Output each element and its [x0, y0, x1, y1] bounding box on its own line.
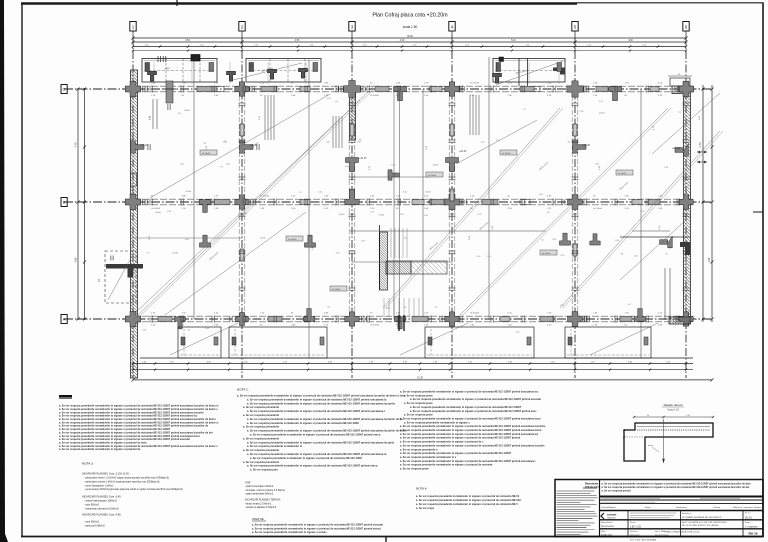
- svg-text:Gr 20x50: Gr 20x50: [618, 173, 627, 175]
- svg-text:-zerasa cu kapada 1.5 kN/m2: -zerasa cu kapada 1.5 kN/m2: [245, 506, 277, 509]
- svg-text:a. Se vor respecta prevederile: a. Se vor respecta prevederile n: [400, 448, 438, 451]
- svg-text:a. Se vor respecta prevederile: a. Se vor respecta prevederile normative…: [400, 417, 541, 420]
- svg-text:- pereti despartitori 1 kN/m2: - pereti despartitori 1 kN/m2: [84, 484, 114, 487]
- svg-text:4.10: 4.10: [400, 40, 405, 42]
- svg-text:Gr 20x50: Gr 20x50: [542, 253, 551, 255]
- svg-text:20x40: 20x40: [184, 110, 190, 112]
- svg-text:a. Se vor respecta preve: a. Se vor respecta preve: [404, 402, 433, 405]
- svg-text:1. PLANSEE: 1. PLANSEE: [745, 526, 758, 529]
- svg-text:ATENTIE:: ATENTIE:: [252, 517, 265, 521]
- svg-text:Semnatura: Semnatura: [676, 506, 687, 509]
- svg-text:a. Se vor respecta preve: a. Se vor respecta preve: [404, 394, 433, 397]
- svg-text:a. Se vor respecta prevederile: a. Se vor respecta prevederile normative…: [252, 527, 381, 530]
- svg-text:- auto 5kN/m2: - auto 5kN/m2: [84, 521, 100, 524]
- svg-text:a. Se vor respecta prevederile: a. Se vor respecta prevederile normative…: [400, 429, 542, 432]
- svg-text:a. Se vor respecta preve: a. Se vor respecta preve: [404, 414, 433, 417]
- svg-text:scala 1:50: scala 1:50: [403, 25, 418, 29]
- svg-text:Gr 20x50: Gr 20x50: [470, 312, 480, 315]
- svg-text:20x40: 20x40: [433, 164, 439, 166]
- svg-text:NOTA 2:: NOTA 2:: [237, 388, 249, 392]
- svg-text:consteel: consteel: [607, 514, 617, 517]
- svg-text:20x40: 20x40: [186, 191, 192, 193]
- svg-text:a. Se vor respecta prevederile: a. Se vor respecta prevederile normative…: [247, 441, 395, 444]
- svg-text:5.10: 5.10: [511, 40, 516, 42]
- svg-text:Gr 20x50: Gr 20x50: [593, 207, 603, 210]
- svg-text:20x40: 20x40: [260, 238, 266, 240]
- svg-text:BLOC LOCUINTE S+P+11E, STR. DE: BLOC LOCUINTE S+P+11E, STR. DEPOZITULUI: [682, 522, 727, 524]
- svg-text:a. Se vor respecta preved: a. Se vor respecta preved: [602, 490, 632, 493]
- svg-text:a. Se vor respecta prevederile: a. Se vor respecta prevederile normative…: [400, 456, 457, 459]
- svg-text:Beneficiar:: Beneficiar:: [682, 513, 692, 515]
- svg-text:a. Se vor respecta prevederile: a. Se vor respecta prevederile: [243, 406, 280, 409]
- svg-text:a. Se vor respecta prevederile: a. Se vor respecta prevederile normative…: [252, 531, 327, 534]
- svg-text:-spatii comerciale 4 kN/m2: -spatii comerciale 4 kN/m2: [245, 485, 274, 488]
- svg-text:20x40: 20x40: [425, 191, 431, 193]
- svg-text:Gr 20x50: Gr 20x50: [288, 239, 297, 241]
- svg-text:a. Se vor respecta prevederile: a. Se vor respecta prevederile normative…: [410, 406, 522, 409]
- svg-text:20x40: 20x40: [599, 113, 605, 115]
- svg-text:a. Se vor respecta prevederile: a. Se vor respecta prevederile normative…: [602, 483, 752, 486]
- svg-text:20x40: 20x40: [173, 252, 179, 254]
- svg-text:NOTA 3:: NOTA 3:: [82, 462, 94, 466]
- svg-text:SC GRAND INGINERIE SRL BUCURES: SC GRAND INGINERIE SRL BUCURESTI: [682, 516, 722, 519]
- svg-text:INCARCARI PLANSEU TERASA:: INCARCARI PLANSEU TERASA:: [245, 499, 281, 502]
- svg-text:- auto 5kN/m2: - auto 5kN/m2: [84, 503, 100, 506]
- svg-text:4.70: 4.70: [75, 142, 78, 147]
- svg-text:20x40: 20x40: [339, 214, 345, 216]
- svg-text:a. Se vor respecta prevederile: a. Se vor respecta prevederile normative…: [400, 425, 546, 428]
- svg-text:NR. 14-22, MUN. PITESTI, JUD.: NR. 14-22, MUN. PITESTI, JUD. ARGES: [682, 524, 719, 527]
- svg-text:Nume: Nume: [645, 507, 652, 509]
- svg-text:-circulatie, scari si podeste: -circulatie, scari si podeste 3.5 kN/m2: [245, 489, 285, 492]
- svg-text:Gr 20x50: Gr 20x50: [151, 207, 161, 210]
- svg-text:NTC 1953 / BKN (SUMAR): NTC 1953 / BKN (SUMAR): [630, 539, 657, 542]
- svg-text:Cerinta: Cerinta: [713, 506, 721, 509]
- svg-text:Data:: Data:: [601, 530, 606, 533]
- svg-text:a. Se vor respecta prevederile: a. Se vor respecta prevederile normative…: [400, 452, 512, 455]
- svg-text:+20.45: +20.45: [459, 150, 467, 153]
- svg-text:20x40: 20x40: [448, 190, 454, 192]
- svg-text:-stratul terasa 2.5 kN/m2: -stratul terasa 2.5 kN/m2: [245, 503, 272, 506]
- svg-text:+20.45: +20.45: [359, 157, 367, 160]
- svg-text:a. Se vor respecta prevederile: a. Se vor respecta prevederile: [243, 414, 280, 417]
- svg-text:INCARCARI PLANSEU Cota -4.85:: INCARCARI PLANSEU Cota -4.85:: [82, 514, 121, 517]
- svg-text:IUNIE 2012: IUNIE 2012: [601, 534, 613, 536]
- svg-text:a. Se vor respecta prevederile: a. Se vor respecta prevederile normative…: [247, 422, 359, 425]
- svg-text:Pr. nr.: Pr. nr.: [745, 513, 751, 515]
- svg-text:a. Se vor respecta prevederile: a. Se vor respecta prevederile normative…: [247, 398, 387, 401]
- svg-text:Faza:: Faza:: [745, 522, 750, 524]
- svg-text:Gr 20x50: Gr 20x50: [332, 289, 341, 291]
- svg-text:a. Se vor respecta prevederile: a. Se vor respecta prevederile normative…: [247, 445, 303, 448]
- svg-text:a. Se vor respecta prevederile: a. Se vor respecta prevederile normative…: [247, 430, 407, 433]
- svg-text:a. Se vor respecta prevederile: a. Se vor respecta prevederile: [243, 461, 280, 464]
- svg-text:- particoatra interior 1.5 kN/: - particoatra interior 1.5 kN/m2 (sapa u…: [84, 477, 169, 480]
- svg-text:Gr 20x50: Gr 20x50: [260, 195, 270, 198]
- svg-text:INCARCARI PLANSEU Cota -3.45:: INCARCARI PLANSEU Cota -3.45:: [82, 496, 121, 499]
- svg-text:-spatii rezidentiale 2kN/m2: -spatii rezidentiale 2kN/m2: [245, 493, 274, 496]
- svg-text:4.65: 4.65: [708, 257, 711, 262]
- svg-text:Referat nr. / semnatura / Expe: Referat nr. / semnatura / Expert: [733, 506, 761, 509]
- svg-text:Rezistenta: Rezistenta: [585, 482, 599, 486]
- svg-text:Desenat: Desenat: [630, 530, 638, 533]
- svg-text:Sef proiect: Sef proiect: [630, 533, 640, 536]
- svg-text:a. Se vor respecta prevederile: a. Se vor respecta prevederile normative…: [400, 460, 536, 463]
- svg-text:20x40: 20x40: [155, 212, 161, 214]
- svg-text:- pereti anterio 2KN/m2 (greu: - pereti anterio 2KN/m2 (greutate aparen…: [84, 488, 183, 491]
- svg-text:Gr 20x50: Gr 20x50: [470, 82, 480, 85]
- svg-text:B: B: [63, 199, 66, 204]
- svg-text:a. Se vor respecta prevederile: a. Se vor respecta prevederile normative…: [59, 448, 141, 451]
- svg-text:a. Se vor respecta prevederile: a. Se vor respecta prevederile normative…: [247, 453, 387, 456]
- svg-text:a. Se vor respe: a. Se vor respe: [416, 507, 435, 510]
- svg-text:a. Se vor respecta prevederile: a. Se vor respecta prevederile normative…: [404, 421, 470, 424]
- svg-text:20x40: 20x40: [379, 214, 385, 216]
- svg-text:a. Se vor respecta prev: a. Se vor respecta prev: [250, 469, 278, 472]
- svg-text:- stratun balumatoaru 10kN/m2: - stratun balumatoaru 10kN/m2: [84, 500, 118, 503]
- svg-text:a. Se vor respecta prevederile: a. Se vor respecta prevederile normative…: [400, 391, 539, 394]
- svg-text:REZISTENTA: REZISTENTA: [601, 525, 614, 528]
- svg-text:Specialitatea: Specialitatea: [601, 521, 613, 524]
- svg-text:a. Se vor respecta preve: a. Se vor respecta preve: [400, 468, 429, 471]
- svg-text:C: C: [63, 86, 66, 91]
- svg-text:Detaliu rebord: Detaliu rebord: [664, 403, 683, 407]
- svg-text:a. Se vor respecta prevederile: a. Se vor respecta prevederile normative…: [252, 524, 383, 527]
- svg-text:Scara 1:20: Scara 1:20: [667, 409, 679, 412]
- svg-text:a. Se vor respecta prevederile: a. Se vor respecta prevederile normative…: [410, 398, 541, 401]
- svg-text:A: A: [63, 316, 66, 321]
- svg-text:a. Se vor respecta prevederile: a. Se vor respecta prevederile normative…: [247, 402, 395, 405]
- svg-text:+20.20: +20.20: [672, 146, 681, 150]
- svg-text:a. Se vor respecta prevederile: a. Se vor respecta prevederile normative…: [237, 395, 406, 398]
- svg-text:31.30: 31.30: [417, 377, 424, 380]
- svg-text:a. Se vor respecta prevederile: a. Se vor respecta prevederile normative…: [400, 441, 483, 444]
- svg-text:a. Se vor respecta prevederile: a. Se vor respecta prevederile normative…: [400, 464, 493, 467]
- svg-text:+20.20: +20.20: [582, 143, 591, 147]
- svg-text:05_41: 05_41: [745, 517, 752, 520]
- svg-text:Scara:: Scara:: [630, 522, 636, 524]
- svg-text:4.65: 4.65: [75, 257, 78, 262]
- svg-text:Gr 20x50: Gr 20x50: [202, 153, 211, 155]
- svg-text:a. Se vor respecta prevederile: a. Se vor respecta prevederile normative…: [247, 410, 385, 413]
- svg-text:a. Se vor respecta prevederile: a. Se vor respecta prevederile normative…: [602, 486, 750, 489]
- svg-text:a. Se vor respecta prevederile: a. Se vor respecta prevederile normative…: [400, 433, 539, 436]
- svg-text:+20.20: +20.20: [140, 143, 149, 147]
- svg-text:a. Se vor respecta prevederile: a. Se vor respecta prevederile normative…: [400, 437, 521, 440]
- svg-text:Verificat/Expert: Verificat/Expert: [601, 506, 616, 509]
- svg-text:4.60: 4.60: [628, 40, 633, 42]
- svg-text:a. Se vor respecta prevederile: a. Se vor respecta prevederile normative…: [400, 444, 545, 447]
- svg-text:4.55: 4.55: [295, 40, 300, 42]
- svg-text:ATAT:: ATAT:: [245, 482, 251, 485]
- svg-text:a. Se vor respecta prevederile: a. Se vor respecta prevederile normative…: [416, 503, 518, 506]
- svg-text:a. Se vor respecta prevederile: a. Se vor respecta prevederile normative…: [410, 410, 537, 413]
- svg-text:- particoatra exterior 2 kN/m2: - particoatra exterior 2 kN/m2 (sapa gre…: [84, 480, 160, 483]
- svg-text:a. Se vor respecta prevederile: a. Se vor respecta prevederile: [243, 449, 280, 452]
- svg-text:INCARCARI PLANSEU Cota -2.10/+: INCARCARI PLANSEU Cota -2.10/+11.60:: [82, 473, 130, 476]
- svg-text:a. Se vor respecta prevederile: a. Se vor respecta prevederile normative…: [247, 418, 403, 421]
- svg-text:4.70: 4.70: [699, 142, 702, 147]
- svg-text:beton: beton: [648, 444, 653, 447]
- svg-text:NOTA 4:: NOTA 4:: [416, 487, 427, 491]
- svg-text:Gr 20x50: Gr 20x50: [428, 175, 437, 177]
- svg-text:Plan Cofraj placa cota +20.20m: Plan Cofraj placa cota +20.20m: [372, 13, 448, 19]
- svg-text:30.60: 30.60: [407, 36, 413, 38]
- svg-text:PLAN COFRAJ PLACA COTA +20.20: PLAN COFRAJ PLACA COTA +20.20: [665, 531, 701, 534]
- svg-text:Gr 20x50: Gr 20x50: [370, 324, 380, 327]
- svg-text:a. Se vor respecta prevederile: a. Se vor respecta prevederile normative…: [250, 434, 381, 437]
- svg-text:a. Se vor respecta prevederile: a. Se vor respecta prevederile normative…: [416, 499, 522, 502]
- svg-text:- estmperatu (jermpert) 10kN/m: - estmperatu (jermpert) 10kN/m2: [84, 507, 119, 510]
- svg-text:a. Se vor respecta prevederile: a. Se vor respecta prevederile: [243, 426, 280, 429]
- svg-text:ing. M. Ionescu: ing. M. Ionescu: [655, 534, 669, 536]
- svg-text:- particual 10kN/m2: - particual 10kN/m2: [84, 524, 105, 527]
- svg-text:a. Se vor respecta prevederile: a. Se vor respecta prevederile normative…: [416, 495, 520, 498]
- svg-text:Gr 20x50: Gr 20x50: [370, 94, 380, 97]
- svg-text:RM_06: RM_06: [748, 532, 757, 536]
- svg-text:4T: 4T: [97, 279, 101, 282]
- svg-text:a. Se vor respecta prevederile: a. Se vor respecta prevederile: [243, 437, 280, 440]
- svg-text:a. Se vor respecta prevederile: a. Se vor respecta prevederile normative…: [250, 457, 362, 460]
- svg-text:a. Se vor respecta prevederile: a. Se vor respecta prevederile normative…: [247, 465, 378, 468]
- svg-text:Gr 20x50: Gr 20x50: [502, 153, 511, 155]
- svg-text:4.50: 4.50: [185, 40, 190, 42]
